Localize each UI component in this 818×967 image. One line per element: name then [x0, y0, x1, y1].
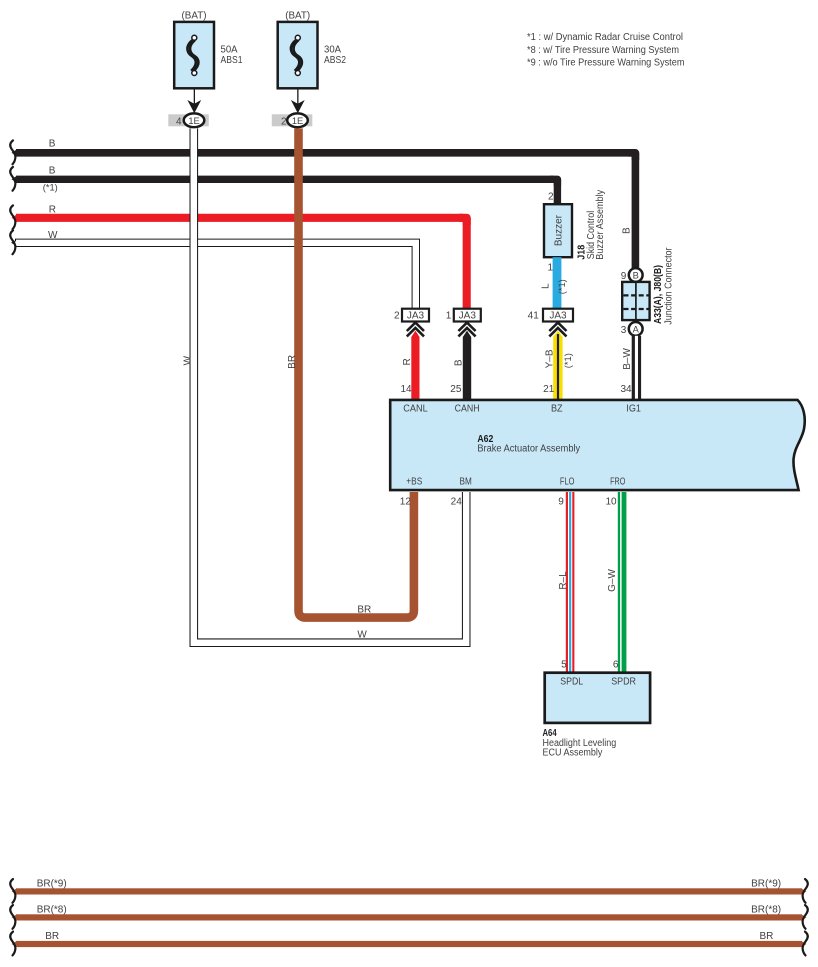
- svg-text:G–W: G–W: [607, 569, 618, 592]
- A64 pin numbers 5 6: [561, 660, 619, 671]
- connector JA3 pin 2: [394, 309, 429, 322]
- svg-text:*1 : w/ Dynamic Radar Cruise C: *1 : w/ Dynamic Radar Cruise Control: [527, 32, 683, 43]
- wire R-L from A62 FLO to A64 SPDL: [558, 492, 574, 673]
- svg-text:14: 14: [400, 384, 412, 395]
- svg-text:(*1): (*1): [557, 279, 567, 294]
- junction connector labels: [653, 247, 674, 325]
- svg-text:(BAT): (BAT): [182, 11, 207, 22]
- svg-text:W: W: [357, 630, 367, 641]
- junction connector A33(A), J80(B) grid: [622, 282, 649, 320]
- connector 1E pin 2: [272, 113, 313, 127]
- svg-text:24: 24: [451, 496, 463, 507]
- svg-text:BR: BR: [357, 605, 371, 616]
- svg-text:1E: 1E: [292, 116, 303, 126]
- svg-text:+BS: +BS: [406, 476, 422, 487]
- svg-text:5: 5: [561, 660, 567, 671]
- svg-text:BM: BM: [460, 476, 472, 487]
- svg-text:Junction Connector: Junction Connector: [663, 247, 674, 325]
- wire Y-B to A62 BZ: [545, 331, 573, 400]
- svg-text:30A: 30A: [324, 45, 341, 56]
- svg-text:41: 41: [528, 311, 540, 322]
- svg-text:50A: 50A: [221, 45, 238, 56]
- A62 bottom pin numbers 12 24 9 10: [400, 496, 617, 507]
- svg-text:25: 25: [450, 384, 462, 395]
- wire R (to JA3 pin 1): [10, 204, 467, 309]
- svg-text:SPDL: SPDL: [560, 677, 583, 688]
- svg-text:JA3: JA3: [459, 311, 477, 322]
- svg-text:10: 10: [605, 496, 617, 507]
- svg-text:BZ: BZ: [551, 403, 563, 414]
- wire B-W from terminal A to A62 IG1: [622, 336, 641, 400]
- A64 Headlight Leveling ECU Assembly: [545, 673, 650, 723]
- svg-text:*8 : w/ Tire Pressure Warning: *8 : w/ Tire Pressure Warning System: [527, 45, 679, 56]
- svg-text:ABS1: ABS1: [221, 55, 243, 66]
- wire BR bottom: [10, 931, 808, 955]
- svg-text:B: B: [633, 270, 639, 280]
- svg-text:(BAT): (BAT): [285, 11, 310, 22]
- buzzer J18: [544, 204, 572, 257]
- fuse ABS2 F2: [278, 11, 347, 89]
- connector 1E pin 4: [168, 113, 209, 127]
- svg-text:ABS2: ABS2: [324, 55, 346, 66]
- svg-text:BR(*8): BR(*8): [751, 905, 781, 916]
- chevron below JA3 pin 41: [549, 323, 566, 337]
- wire B (*1) (to buzzer): [10, 165, 557, 204]
- svg-text:*9 : w/o Tire Pressure Warning: *9 : w/o Tire Pressure Warning System: [527, 58, 685, 69]
- svg-text:BR: BR: [45, 931, 59, 942]
- svg-text:Y–B: Y–B: [545, 349, 556, 368]
- wire W from fuse ABS1 to A62 +BM: [183, 128, 467, 642]
- svg-text:3: 3: [621, 325, 627, 336]
- svg-text:9: 9: [558, 496, 564, 507]
- wire BR(*9) bottom: [10, 879, 808, 903]
- fuse ABS1 F1: [174, 11, 243, 89]
- svg-text:9: 9: [621, 271, 627, 282]
- svg-text:B: B: [454, 359, 465, 366]
- wire B (to junction connector): [10, 138, 635, 268]
- svg-text:6: 6: [613, 660, 619, 671]
- chevron below JA3 pin 2: [407, 323, 424, 337]
- svg-text:Buzzer Assembly: Buzzer Assembly: [595, 190, 606, 260]
- svg-text:2: 2: [548, 191, 554, 202]
- svg-text:Brake Actuator Assembly: Brake Actuator Assembly: [477, 443, 580, 454]
- wire B to A62 CANH: [454, 331, 472, 400]
- svg-text:B: B: [49, 138, 56, 149]
- svg-text:1: 1: [547, 263, 553, 274]
- wire BR(*8) bottom: [10, 905, 808, 929]
- svg-text:R: R: [402, 358, 413, 365]
- fuse ABS2 lead + arrow: [291, 88, 305, 113]
- fuse ABS1 lead + arrow: [187, 88, 201, 113]
- svg-text:W: W: [183, 355, 194, 365]
- svg-text:21: 21: [543, 384, 555, 395]
- svg-text:34: 34: [620, 384, 632, 395]
- svg-text:CANL: CANL: [403, 403, 428, 414]
- junction connector terminal A pin 3: [621, 322, 643, 336]
- svg-text:R: R: [49, 204, 56, 215]
- svg-text:JA3: JA3: [549, 311, 567, 322]
- svg-text:W: W: [48, 230, 58, 241]
- chevron below JA3 pin 1: [458, 323, 475, 337]
- wire R to A62 CANL: [402, 331, 420, 400]
- svg-text:BR: BR: [760, 931, 774, 942]
- svg-text:FRO: FRO: [610, 476, 625, 487]
- A62 Brake Actuator Assembly: [390, 400, 805, 490]
- svg-text:1: 1: [446, 311, 452, 322]
- svg-text:CANH: CANH: [455, 403, 480, 414]
- svg-text:L: L: [540, 283, 551, 289]
- svg-text:BR(*9): BR(*9): [751, 879, 781, 890]
- svg-text:1E: 1E: [188, 116, 199, 126]
- svg-text:B: B: [621, 227, 632, 234]
- svg-text:Buzzer: Buzzer: [553, 214, 564, 246]
- svg-text:A: A: [633, 324, 640, 334]
- svg-text:FLO: FLO: [560, 476, 575, 487]
- svg-text:BR: BR: [287, 355, 298, 369]
- svg-text:ECU Assembly: ECU Assembly: [543, 747, 603, 758]
- wire G-W from A62 FRO to A64 SPDR: [607, 492, 626, 673]
- A62 top pin numbers 14 25 21 34: [400, 384, 632, 395]
- buzzer labels J18 Skid Control Buzzer Assembly: [577, 190, 606, 260]
- connector JA3 pin 1: [446, 309, 481, 322]
- svg-text:B–W: B–W: [622, 348, 633, 370]
- svg-text:IG1: IG1: [626, 403, 641, 414]
- svg-text:4: 4: [176, 117, 182, 128]
- svg-text:SPDR: SPDR: [611, 677, 636, 688]
- svg-text:(*1): (*1): [563, 353, 573, 368]
- svg-text:BR(*9): BR(*9): [37, 879, 67, 890]
- wire L from buzzer pin 1 to JA3 pin 41: [540, 257, 567, 309]
- svg-text:(*1): (*1): [43, 182, 58, 192]
- svg-text:12: 12: [400, 496, 412, 507]
- svg-text:JA3: JA3: [407, 311, 425, 322]
- A64 labels: [543, 728, 617, 758]
- svg-text:A33(A), J80(B): A33(A), J80(B): [653, 265, 664, 324]
- wire W (to JA3 pin 2): [10, 230, 416, 309]
- svg-text:2: 2: [394, 311, 400, 322]
- svg-text:R–L: R–L: [558, 571, 569, 590]
- svg-text:2: 2: [281, 117, 287, 128]
- wire BR from fuse ABS2 to A62 +BS: [287, 128, 414, 617]
- connector JA3 pin 41: [528, 309, 573, 322]
- svg-text:B: B: [49, 165, 56, 176]
- svg-text:BR(*8): BR(*8): [37, 905, 67, 916]
- junction connector terminal B pin 9: [621, 268, 643, 282]
